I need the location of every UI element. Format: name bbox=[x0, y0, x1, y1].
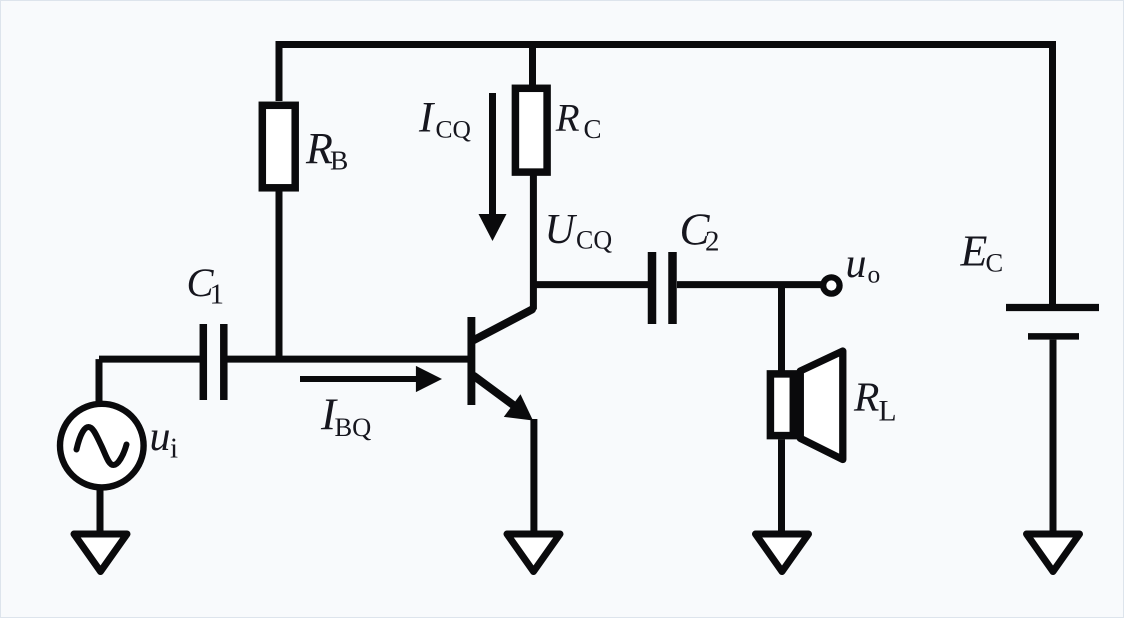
ground under emitter bbox=[507, 534, 560, 572]
label uo bbox=[846, 241, 881, 288]
label ICQ bbox=[418, 95, 471, 144]
battery EC short plate bbox=[1028, 333, 1079, 340]
label RL bbox=[853, 374, 897, 428]
capacitor C1 left plate bbox=[200, 324, 208, 400]
label C1 bbox=[187, 260, 225, 311]
svg-text:CQ: CQ bbox=[576, 226, 612, 255]
resistor RB bbox=[262, 105, 295, 188]
resistor RC bbox=[515, 88, 547, 172]
svg-text:2: 2 bbox=[705, 226, 720, 258]
wire C1 to transistor base bbox=[228, 356, 468, 363]
svg-text:R: R bbox=[853, 374, 879, 420]
svg-text:i: i bbox=[170, 433, 178, 465]
svg-text:R: R bbox=[555, 97, 580, 140]
output terminal circle uo bbox=[823, 277, 839, 293]
capacitor C2 left plate bbox=[648, 252, 657, 324]
svg-text:C: C bbox=[986, 248, 1004, 278]
capacitor C1 right plate bbox=[220, 324, 228, 400]
label C2 bbox=[680, 205, 720, 258]
arrow ICQ bbox=[489, 93, 496, 218]
svg-text:CQ: CQ bbox=[436, 115, 471, 144]
ac source ui circle bbox=[60, 404, 144, 488]
wire battery bottom to ground bbox=[1050, 340, 1057, 531]
svg-text:E: E bbox=[960, 227, 988, 276]
svg-text:BQ: BQ bbox=[335, 412, 372, 442]
svg-text:R: R bbox=[305, 124, 333, 173]
wire collector vertical (RC bottom to output node) bbox=[530, 172, 537, 310]
wire output node to C2 bbox=[533, 281, 648, 288]
label ui bbox=[150, 414, 179, 465]
speaker horn of RL bbox=[800, 351, 843, 460]
ground under EC bbox=[1027, 534, 1080, 572]
wire top supply bus from RB top to EC top bbox=[279, 45, 1053, 305]
wire C2 to output terminal bbox=[677, 281, 821, 288]
svg-text:o: o bbox=[868, 259, 881, 288]
svg-text:u: u bbox=[846, 241, 867, 287]
resistor RL bbox=[770, 374, 793, 436]
wire emitter vertical to ground bbox=[530, 419, 537, 531]
transistor Q1 base bar bbox=[467, 317, 475, 405]
svg-text:C: C bbox=[584, 114, 602, 144]
transistor emitter arrowhead bbox=[504, 394, 533, 420]
battery EC long plate bbox=[1006, 304, 1099, 311]
wire left vertical down to source bbox=[96, 359, 103, 403]
svg-text:1: 1 bbox=[210, 279, 225, 311]
label EC bbox=[960, 227, 1004, 278]
label UCQ bbox=[545, 207, 613, 255]
label RC bbox=[555, 97, 602, 145]
svg-text:I: I bbox=[418, 95, 435, 142]
label RB bbox=[305, 124, 348, 175]
ground under source bbox=[74, 534, 127, 572]
svg-text:u: u bbox=[150, 414, 171, 460]
svg-text:U: U bbox=[545, 207, 578, 253]
transistor collector diagonal bbox=[474, 310, 532, 341]
wire source top to C1 left plate bbox=[99, 356, 200, 363]
label IBQ bbox=[320, 390, 371, 442]
wire drop from top bus to RC top bbox=[529, 45, 536, 89]
svg-text:L: L bbox=[879, 395, 897, 427]
wire RB bottom to base node bbox=[276, 192, 283, 360]
capacitor C2 right plate bbox=[668, 252, 677, 324]
transistor emitter diagonal bbox=[474, 376, 522, 412]
ground under RL bbox=[756, 534, 809, 572]
wire junction down to RL bbox=[778, 285, 785, 371]
wire RL bottom to ground bbox=[778, 439, 785, 531]
arrow IBQ bbox=[300, 376, 417, 382]
svg-text:B: B bbox=[330, 144, 348, 175]
ac source sine wave bbox=[77, 427, 127, 465]
wire source bottom to ground bbox=[97, 487, 104, 532]
